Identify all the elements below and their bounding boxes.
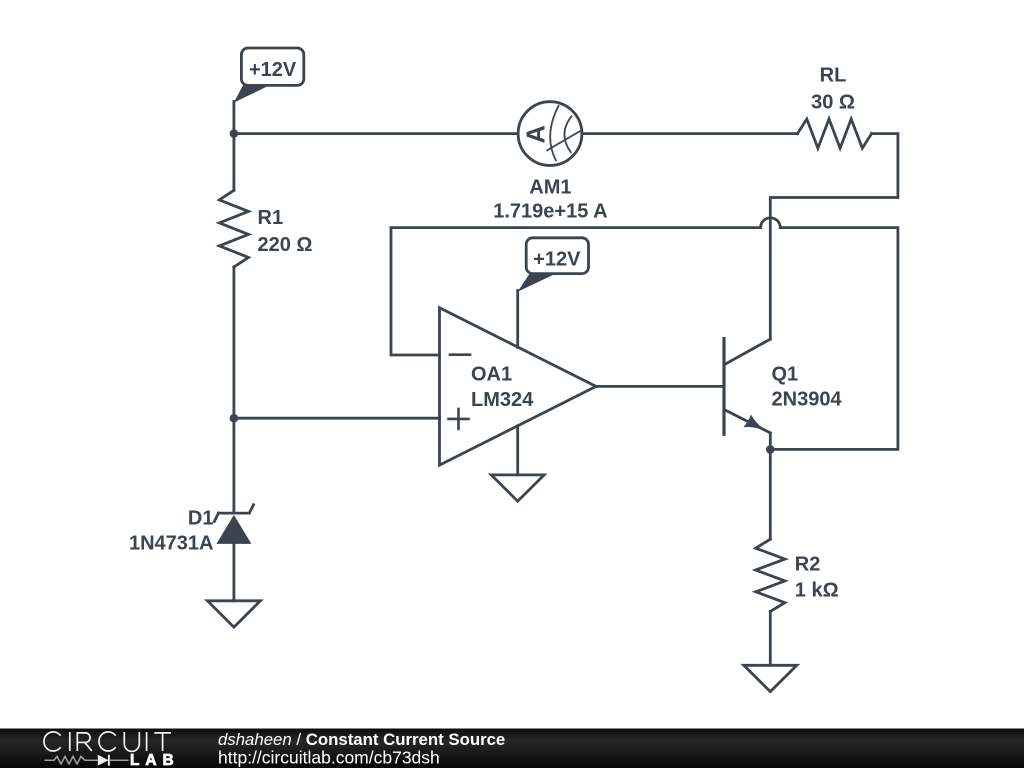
ground (below R2) bbox=[744, 665, 797, 691]
svg-text:D1: D1 bbox=[188, 507, 214, 529]
svg-text:OA1: OA1 bbox=[471, 364, 512, 386]
resistor R2 bbox=[756, 539, 785, 611]
op-amp minus sign bbox=[450, 353, 470, 356]
footer bar bbox=[0, 729, 1024, 768]
wire emitter node to R2 bbox=[769, 449, 772, 539]
ground (below op-amp) bbox=[491, 475, 544, 501]
wire - input and feedback (left, up, right with hop, down, to emitter) bbox=[391, 218, 898, 450]
zener diode D1 bbox=[214, 505, 253, 544]
svg-text:220 Ω: 220 Ω bbox=[258, 234, 313, 256]
svg-text:+12V: +12V bbox=[533, 248, 581, 270]
svg-text:dshaheen / Constant Current So: dshaheen / Constant Current Source bbox=[218, 730, 505, 749]
wire node A down to R1 bbox=[232, 134, 235, 191]
power flag +12V (op-amp V+) bbox=[518, 238, 589, 292]
svg-text:30 Ω: 30 Ω bbox=[811, 92, 855, 114]
op-amp OA1 bbox=[440, 308, 597, 465]
resistor R1 bbox=[219, 190, 248, 267]
svg-text:R2: R2 bbox=[795, 554, 821, 576]
wire op-amp output to base bbox=[596, 385, 724, 388]
wire R1 to node B bbox=[232, 267, 235, 418]
svg-text:AM1: AM1 bbox=[529, 176, 571, 198]
wire flag tail to node A bbox=[232, 102, 235, 134]
svg-text:1N4731A: 1N4731A bbox=[129, 533, 214, 555]
svg-text:LM324: LM324 bbox=[471, 389, 534, 411]
wire D1 to ground bbox=[232, 544, 235, 601]
svg-text:Q1: Q1 bbox=[772, 364, 799, 386]
ammeter AM1 bbox=[518, 102, 582, 166]
wire + input from node B bbox=[234, 417, 440, 420]
svg-text:LAB: LAB bbox=[130, 752, 180, 768]
wire ammeter to RL bbox=[582, 132, 797, 135]
svg-text:+12V: +12V bbox=[249, 59, 297, 81]
wire node A to ammeter bbox=[234, 132, 518, 135]
svg-text:1.719e+15 A: 1.719e+15 A bbox=[493, 200, 607, 222]
wire op-amp V- to ground bbox=[516, 426, 519, 475]
wire R2 to ground bbox=[769, 611, 772, 665]
node A junction dot bbox=[230, 129, 239, 138]
node B junction dot bbox=[230, 414, 239, 423]
node C junction dot (emitter) bbox=[766, 445, 775, 454]
wire node B down to D1 bbox=[232, 418, 235, 513]
svg-text:A: A bbox=[523, 125, 551, 143]
wire op-amp V+ bbox=[516, 291, 519, 348]
logo diode wire bbox=[109, 759, 129, 761]
logo resistor zigzag bbox=[45, 756, 98, 764]
svg-text:2N3904: 2N3904 bbox=[772, 388, 843, 410]
svg-text:http://circuitlab.com/cb73dsh: http://circuitlab.com/cb73dsh bbox=[218, 748, 440, 768]
transistor Q1 bbox=[724, 339, 770, 450]
wire RL to collector (right drop, corner, down) bbox=[770, 134, 898, 340]
power flag +12V (top left) bbox=[234, 48, 304, 103]
op-amp plus sign bbox=[449, 409, 469, 429]
resistor RL bbox=[798, 119, 872, 148]
svg-text:RL: RL bbox=[820, 65, 847, 87]
CircuitLab logo word CIRCUIT bbox=[44, 732, 171, 752]
ground (below D1) bbox=[207, 601, 260, 627]
svg-text:1 kΩ: 1 kΩ bbox=[795, 580, 839, 602]
svg-text:R1: R1 bbox=[258, 207, 284, 229]
logo diode bbox=[98, 755, 109, 766]
